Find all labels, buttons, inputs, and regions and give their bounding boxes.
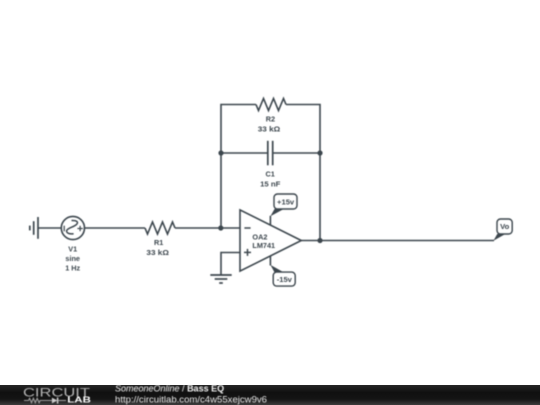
output wire op-amp to Vo bbox=[301, 240, 494, 242]
node D (right C1 tap) bbox=[317, 150, 322, 155]
svg-text:LM741: LM741 bbox=[252, 241, 275, 250]
wire V1 to R1 bbox=[85, 227, 146, 229]
svg-text:R2: R2 bbox=[266, 114, 275, 123]
wire ground to V1 bbox=[38, 227, 61, 229]
svg-text:LAB: LAB bbox=[67, 394, 91, 404]
svg-text:+15v: +15v bbox=[277, 197, 295, 206]
logo circuit line (zigzag + diode) bbox=[24, 398, 66, 402]
wire C1 branch left bbox=[221, 152, 268, 154]
svg-text:Vo: Vo bbox=[500, 222, 510, 231]
resistor R1 bbox=[145, 222, 175, 234]
wire op-amp V- pin bbox=[269, 256, 271, 266]
node C (left C1 tap) bbox=[218, 150, 223, 155]
flag pointer -15v bbox=[270, 265, 284, 273]
wire feedback left vertical bbox=[221, 105, 256, 229]
footer bar bbox=[0, 385, 540, 405]
wire op-amp + input to ground bbox=[221, 253, 240, 276]
output flag Vo box bbox=[497, 219, 512, 234]
node B (output junction) bbox=[317, 238, 322, 243]
op-amp plus input mark bbox=[244, 249, 251, 256]
wire op-amp V+ pin bbox=[269, 216, 271, 226]
flag pointer Vo bbox=[493, 234, 505, 241]
svg-text:R1: R1 bbox=[154, 238, 163, 247]
power flag -15v box bbox=[273, 272, 295, 286]
wire R1 to op-amp inverting input bbox=[175, 227, 240, 229]
svg-text:1 Hz: 1 Hz bbox=[65, 264, 80, 273]
ground GND1 (left, rotated) bbox=[30, 217, 38, 239]
wire feedback right vertical bbox=[286, 105, 320, 241]
ground GND2 bbox=[210, 275, 231, 283]
resistor R2 bbox=[256, 99, 286, 111]
svg-text:C1: C1 bbox=[266, 170, 275, 179]
power flag +15v box bbox=[274, 194, 297, 209]
svg-text:33 kΩ: 33 kΩ bbox=[258, 125, 281, 134]
svg-text:-15v: -15v bbox=[277, 275, 293, 284]
svg-text:15 nF: 15 nF bbox=[260, 179, 281, 188]
capacitor C1 plates bbox=[268, 141, 273, 166]
wire C1 branch right bbox=[273, 152, 320, 154]
op-amp minus input mark bbox=[244, 227, 250, 229]
svg-text:sine: sine bbox=[65, 254, 80, 263]
voltage source V1 bbox=[61, 216, 84, 239]
svg-text:SomeoneOnline / Bass EQ: SomeoneOnline / Bass EQ bbox=[115, 385, 224, 394]
op-amp OA2 body bbox=[240, 210, 301, 271]
svg-text:OA2: OA2 bbox=[252, 232, 267, 241]
svg-text:V1: V1 bbox=[68, 244, 77, 253]
svg-text:33 kΩ: 33 kΩ bbox=[146, 248, 169, 257]
flag pointer +15v bbox=[270, 209, 284, 216]
svg-text:http://circuitlab.com/c4w55xej: http://circuitlab.com/c4w55xejcw9v6 bbox=[115, 394, 267, 404]
node A (junction R1 / feedback) bbox=[218, 225, 223, 230]
